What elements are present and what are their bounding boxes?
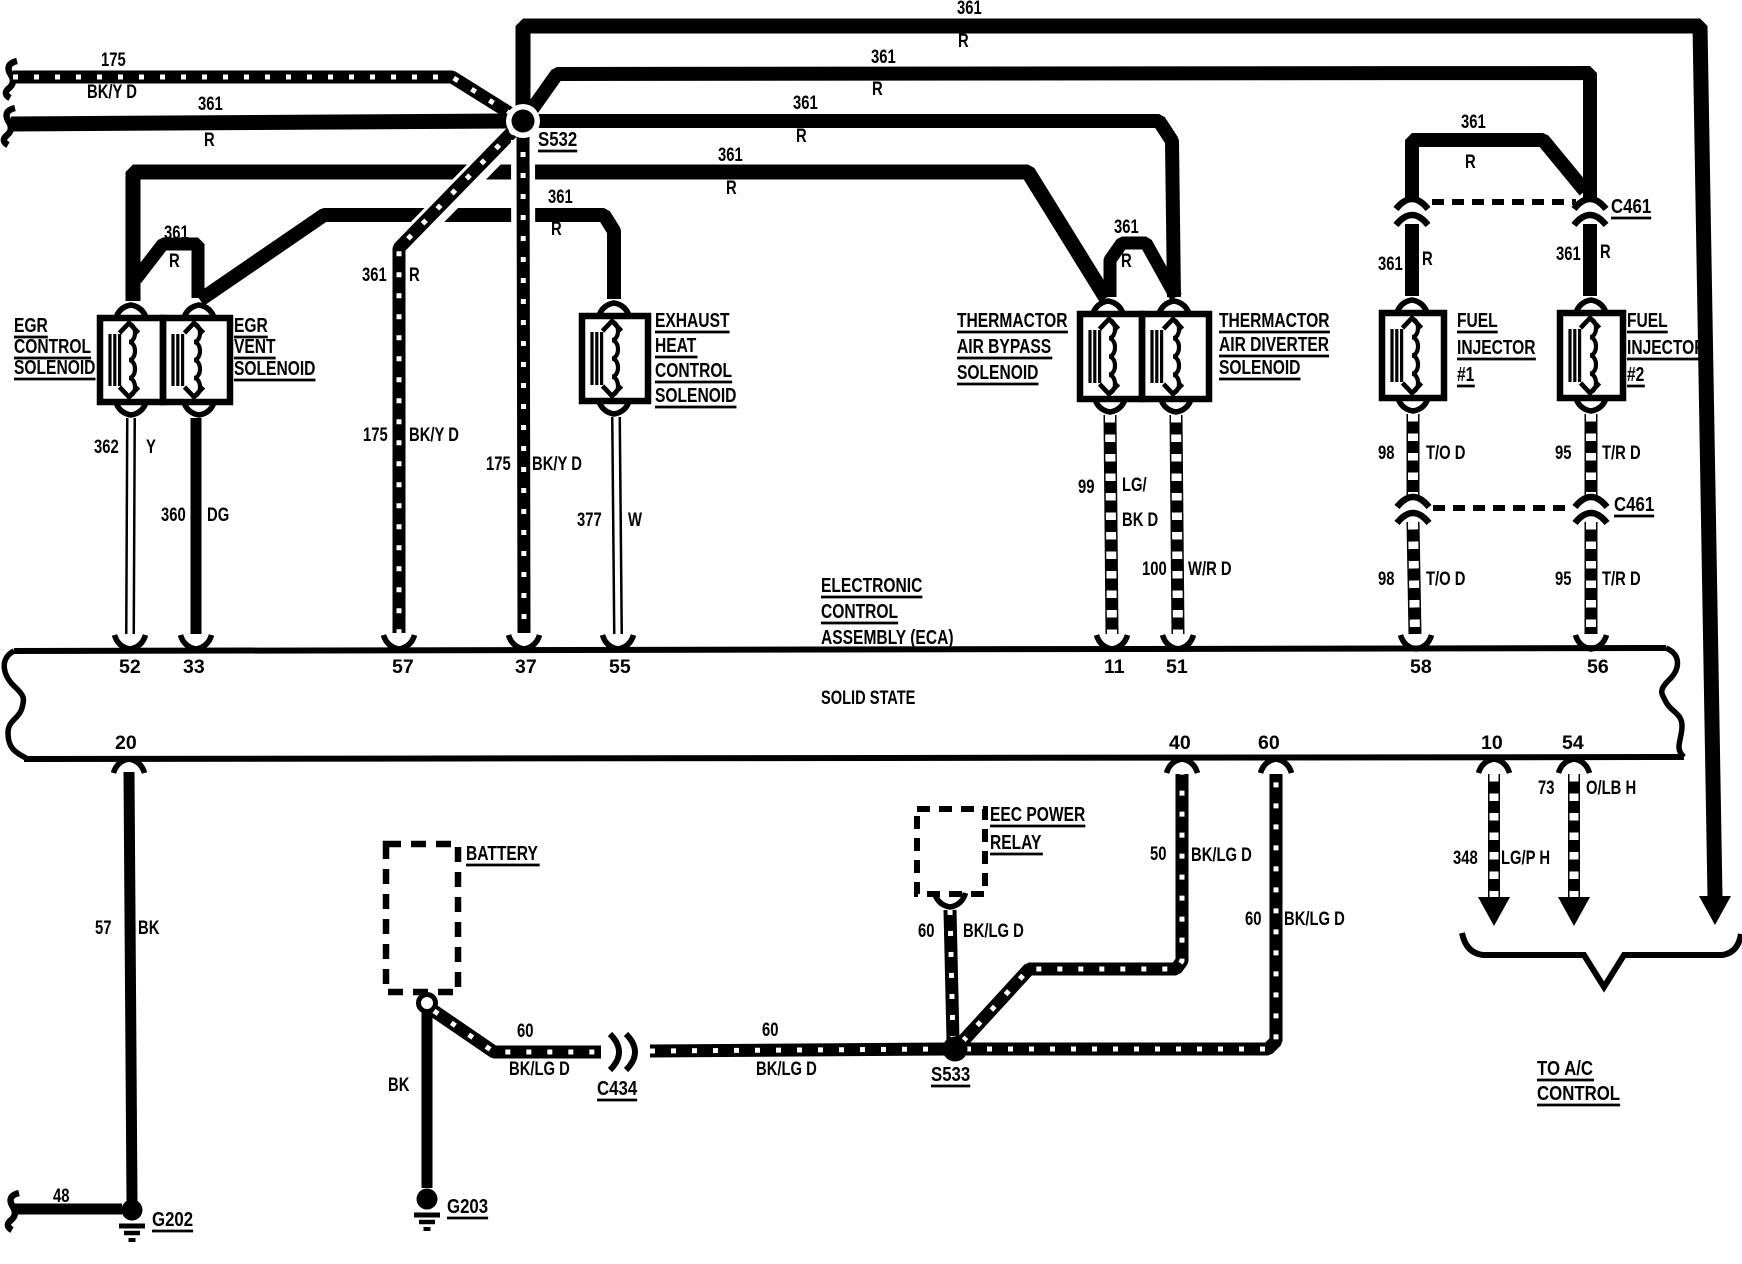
svg-text:37: 37 [515,656,537,678]
svg-text:SOLENOID: SOLENOID [957,361,1038,383]
svg-text:R: R [1422,248,1433,269]
wire 99 LG/BK D thermactor air bypass to ECA pin 11 (striped) [1078,415,1158,634]
wire 361 R from left to splice S532 [4,93,516,150]
svg-text:R: R [551,218,562,239]
wire 95 T/R D lower segment to ECA pin 56 (striped) [1555,522,1641,634]
wire 60 BK/LG D connector C434 to splice S533 (dotted) [650,1019,948,1079]
svg-text:BK/LG D: BK/LG D [1284,908,1345,929]
battery terminal [419,995,436,1012]
svg-text:R: R [958,30,969,51]
svg-text:51: 51 [1166,656,1188,678]
ECA pin 52 [115,635,146,678]
svg-text:T/O D: T/O D [1426,568,1465,589]
svg-text:LG/: LG/ [1122,474,1147,495]
svg-text:EGR: EGR [234,314,268,336]
arrow end of wire 73 [1558,897,1590,926]
svg-text:BK/LG D: BK/LG D [756,1058,817,1079]
svg-text:R: R [872,78,883,99]
svg-text:CONTROL: CONTROL [821,600,898,622]
svg-text:THERMACTOR: THERMACTOR [957,309,1068,331]
svg-text:50: 50 [1150,843,1166,864]
svg-text:VENT: VENT [234,335,276,357]
wire 175 BK/Y D splice S532 to ECA pin 57 (dotted) [362,130,514,633]
svg-text:LG/P H: LG/P H [1501,847,1550,868]
svg-text:EXHAUST: EXHAUST [655,309,730,331]
svg-text:Y: Y [146,436,156,457]
svg-text:60: 60 [517,1020,533,1041]
svg-text:BATTERY: BATTERY [466,842,538,864]
svg-text:R: R [409,264,420,285]
svg-text:362: 362 [94,436,119,457]
svg-text:FUEL: FUEL [1627,309,1668,331]
ECA pin 40 [1167,732,1198,773]
svg-text:SOLENOID: SOLENOID [655,384,736,406]
ECA band bottom edge [24,757,1684,759]
connector C461 on injector #1 return [1397,497,1429,523]
connector C461 on injector #2 return [1575,497,1607,523]
svg-text:48: 48 [53,1185,69,1206]
ECA band right break squiggle [1662,648,1684,757]
EEC power relay box (dashed) [917,803,1085,894]
svg-text:361: 361 [198,93,223,114]
svg-text:#2: #2 [1627,363,1644,385]
label FUEL INJECTOR #1 [1457,309,1536,386]
label TO A/C CONTROL [1537,1056,1620,1105]
svg-text:FUEL: FUEL [1457,309,1498,331]
svg-text:175: 175 [101,49,126,70]
svg-text:C461: C461 [1614,492,1654,515]
svg-text:100: 100 [1142,558,1167,579]
svg-text:BK/Y D: BK/Y D [87,81,137,102]
svg-text:BK: BK [138,917,160,938]
svg-text:361: 361 [957,0,982,18]
ECA band left break squiggle [4,651,26,758]
svg-text:361: 361 [793,92,818,113]
svg-text:361: 361 [548,186,573,207]
svg-text:99: 99 [1078,476,1094,497]
svg-text:11: 11 [1104,656,1125,678]
svg-text:57: 57 [95,917,111,938]
svg-text:S532: S532 [538,127,577,150]
wire 73 O/LB H ECA pin 54 to A/C control (striped) [1538,774,1636,899]
exhaust heat control solenoid box [582,303,648,414]
wire 361 R jumper thermactor air bypass to air diverter solenoid [1110,216,1176,297]
svg-text:ASSEMBLY (ECA): ASSEMBLY (ECA) [821,626,954,648]
label ELECTRONIC CONTROL ASSEMBLY (ECA) [821,574,955,649]
svg-text:G202: G202 [152,1207,193,1230]
connector C461 on fuel injector #2 feed [1574,199,1606,225]
svg-text:361: 361 [1461,111,1486,132]
arrow end of wire 348 [1478,897,1510,926]
svg-text:INJECTOR: INJECTOR [1627,336,1706,358]
svg-text:95: 95 [1555,442,1571,463]
svg-text:CONTROL: CONTROL [14,335,91,357]
label EGR CONTROL SOLENOID [14,314,95,379]
dashed tie line between lower C461 halves [1433,505,1573,511]
wire BK battery to ground G203 [388,1012,427,1188]
ECA pin 51 [1163,635,1194,678]
ECA pin 60 [1258,732,1292,773]
svg-text:60: 60 [918,920,934,941]
wire 360 DG EGR vent solenoid to ECA pin 33 [161,418,229,634]
ECA band top edge [14,648,1666,651]
svg-text:BK: BK [388,1074,410,1095]
svg-text:S533: S533 [931,1062,970,1085]
svg-text:348: 348 [1453,847,1478,868]
wire 361 R fourth run (to EGR solenoids and thermactor air bypass) [133,144,1106,301]
svg-text:O/LB H: O/LB H [1586,777,1636,798]
svg-text:BK/LG D: BK/LG D [963,920,1024,941]
label EXHAUST HEAT CONTROL SOLENOID [655,309,736,407]
svg-text:58: 58 [1410,656,1432,678]
wire 57 BK ECA pin 20 to ground G202 [95,772,160,1202]
wire 348 LG/P H ECA pin 10 to A/C control (striped) [1453,774,1550,899]
wire 361 R top run: S532 up, across top, down right edge [523,0,1715,897]
ECA pin 54 [1559,732,1590,773]
wire 361 R below C461 to fuel injector #1 [1378,224,1433,296]
ground G202 [119,1200,193,1241]
svg-text:33: 33 [183,656,205,678]
svg-text:60: 60 [762,1019,778,1040]
svg-text:361: 361 [1378,253,1403,274]
wire 361 R second run (to fuel injector #2 branch) [528,46,1590,200]
svg-text:W/R D: W/R D [1188,558,1232,579]
label SOLID STATE [821,686,915,709]
label EGR VENT SOLENOID [234,314,315,380]
svg-text:SOLENOID: SOLENOID [14,356,95,378]
svg-text:20: 20 [115,732,137,754]
svg-text:THERMACTOR: THERMACTOR [1219,309,1330,331]
svg-text:RELAY: RELAY [990,831,1041,853]
svg-text:R: R [1465,151,1476,172]
svg-text:SOLENOID: SOLENOID [234,357,315,379]
svg-text:361: 361 [718,144,743,165]
ECA pin 57 [384,635,415,678]
svg-text:361: 361 [1114,216,1139,237]
EGR vent solenoid box [163,305,230,415]
svg-text:40: 40 [1169,732,1191,754]
svg-text:10: 10 [1481,732,1503,754]
svg-text:EGR: EGR [14,314,48,336]
svg-text:361: 361 [1556,243,1581,264]
svg-text:R: R [204,129,215,150]
label THERMACTOR AIR DIVERTER SOLENOID [1219,309,1330,379]
svg-text:EEC POWER: EEC POWER [990,803,1085,825]
svg-text:98: 98 [1378,568,1394,589]
connector C434 [597,1034,638,1100]
wire 361 R below C461 to fuel injector #2 [1556,224,1611,296]
svg-text:377: 377 [577,509,602,530]
svg-text:BK/Y D: BK/Y D [532,453,582,474]
label C461 (upper) [1611,194,1651,218]
svg-text:360: 360 [161,504,186,525]
wire 362 Y EGR control solenoid to ECA pin 52 (double line) [94,418,156,634]
svg-text:361: 361 [164,222,189,243]
svg-text:57: 57 [392,656,414,678]
brace joining wires to A/C control [1462,933,1741,987]
svg-text:73: 73 [1538,777,1554,798]
svg-text:ELECTRONIC: ELECTRONIC [821,574,922,596]
wire 60 BK/LG D relay to splice S533 (dotted) [918,910,1024,1040]
svg-text:T/R D: T/R D [1602,568,1641,589]
svg-text:98: 98 [1378,442,1394,463]
ECA pin 55 [603,635,634,678]
ECA pin 37 [509,635,540,678]
wire 361 R branch to fuel injector #1 [1412,111,1585,200]
svg-text:C434: C434 [597,1076,638,1099]
wire 60 BK/LG D battery to connector C434 (dotted) [434,1011,601,1079]
label THERMACTOR AIR BYPASS SOLENOID [957,309,1068,384]
wire 50 BK/LG D splice S533 to ECA pin 40 (dotted) [963,774,1252,1041]
svg-text:R: R [1121,250,1132,271]
fuel injector #2 box [1560,300,1623,411]
wire 60 BK/LG D splice S533 to ECA pin 60 (dotted) [966,774,1345,1049]
svg-text:R: R [169,250,180,271]
ground G203 [414,1189,488,1230]
dashed tie line between C461 halves [1432,199,1576,205]
svg-text:SOLENOID: SOLENOID [1219,356,1300,378]
svg-text:175: 175 [363,424,388,445]
wire 100 W/R D thermactor air diverter to ECA pin 51 (striped) [1142,415,1232,634]
svg-text:HEAT: HEAT [655,334,696,356]
svg-text:TO A/C: TO A/C [1537,1056,1593,1079]
svg-text:54: 54 [1562,732,1584,754]
svg-text:BK/LG D: BK/LG D [509,1058,570,1079]
thermactor air diverter solenoid box [1142,301,1209,412]
label FUEL INJECTOR #2 [1627,309,1706,386]
label C461 (lower) [1614,492,1654,516]
wire 175 BK/Y D from left to splice S532 (dotted) [6,49,516,117]
svg-text:CONTROL: CONTROL [1537,1081,1620,1104]
ECA pin 33 [181,635,212,678]
battery box (dashed) [386,842,540,992]
ECA pin 20 [114,732,145,773]
svg-text:56: 56 [1587,656,1609,678]
wire 98 T/O D fuel injector #1 upper segment (striped) [1378,414,1465,496]
wire 361 R jumper EGR control to EGR vent solenoid [136,222,198,298]
wire 361 R from EGR vent solenoid to exhaust heat control solenoid [200,186,614,300]
thermactor air bypass solenoid box [1080,301,1142,412]
svg-text:C461: C461 [1611,194,1651,217]
svg-text:CONTROL: CONTROL [655,359,732,381]
svg-text:361: 361 [871,46,896,67]
svg-text:T/R D: T/R D [1602,442,1641,463]
splice S533 [931,1037,970,1087]
svg-text:55: 55 [609,656,631,678]
svg-text:G203: G203 [447,1194,488,1217]
wire 48 to ground G202 [8,1185,122,1230]
ECA pin 10 [1479,732,1510,773]
svg-text:60: 60 [1245,908,1261,929]
arrow end of right-edge 361 R wire [1699,896,1731,925]
svg-text:60: 60 [1258,732,1280,754]
svg-text:AIR BYPASS: AIR BYPASS [957,335,1051,357]
svg-text:BK D: BK D [1122,509,1158,530]
ECA pin 56 [1576,635,1609,678]
svg-text:SOLID STATE: SOLID STATE [821,686,915,709]
wire 361 R third run (to thermactor air diverter solenoid) [533,92,1174,297]
svg-text:BK/LG D: BK/LG D [1191,844,1252,865]
EGR control solenoid box [100,305,163,415]
wire 95 T/R D fuel injector #2 upper segment (striped) [1555,414,1641,496]
wire 175 BK/Y D splice S532 to ECA pin 37 (dotted) [486,131,582,633]
svg-text:R: R [1600,241,1611,262]
svg-text:52: 52 [119,656,141,678]
ECA pin 11 [1097,635,1128,678]
wire 98 T/O D lower segment to ECA pin 58 (striped) [1378,522,1465,634]
fuel injector #1 box [1382,300,1444,411]
svg-text:INJECTOR: INJECTOR [1457,336,1536,358]
svg-text:#1: #1 [1457,363,1474,385]
connector C461 on fuel injector #1 feed [1396,199,1428,225]
ECA pin 58 [1401,635,1432,678]
wire 377 W exhaust heat control solenoid to ECA pin 55 (double line) [577,417,643,634]
svg-text:175: 175 [486,453,511,474]
svg-text:361: 361 [362,264,387,285]
svg-text:BK/Y D: BK/Y D [409,424,459,445]
svg-text:AIR DIVERTER: AIR DIVERTER [1219,333,1329,355]
splice S532 [506,104,577,151]
svg-text:95: 95 [1555,568,1571,589]
svg-text:W: W [628,509,643,530]
svg-text:R: R [796,125,807,146]
svg-text:R: R [726,177,737,198]
EEC power relay pin [935,893,966,907]
svg-text:T/O D: T/O D [1426,442,1465,463]
svg-text:DG: DG [207,504,229,525]
